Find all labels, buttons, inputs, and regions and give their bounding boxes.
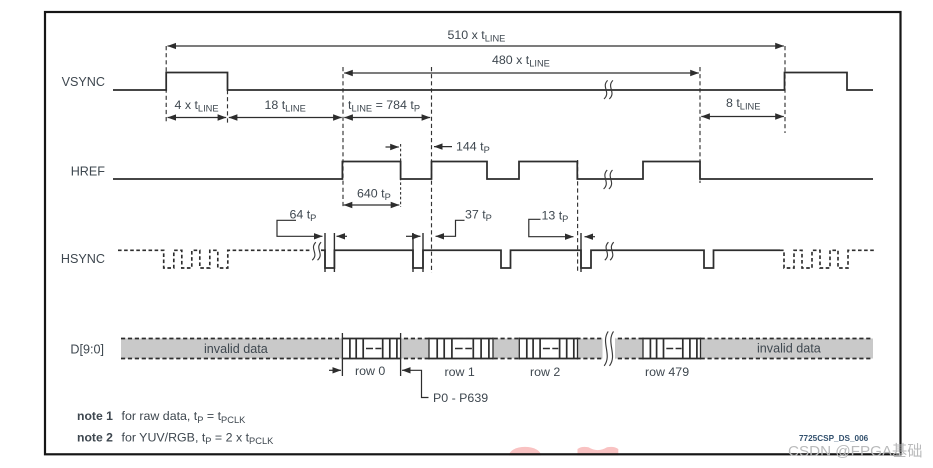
arrow 37 tP counterpart [406,235,421,237]
dashed guide x=577.6 [577,160,579,273]
tick x=581 [580,233,582,272]
tick x=334.4 [333,233,335,272]
wire HREF waveform [113,162,873,180]
dashed guide x=343 [342,67,344,207]
tick x=413 [412,233,414,272]
arrow 13 tP counterpart [585,236,596,238]
dashed guide x=227.5 [227,90,229,123]
arrow 144 tP left [434,146,452,148]
dim arrow 8 tLINE [701,116,784,118]
svg-text:CSDN @FPGA基础: CSDN @FPGA基础 [788,443,922,460]
watermark red blob 2 [578,447,619,456]
leader arrow 13 tP [529,219,574,236]
break HSYNC squiggle left [312,242,321,260]
break HREF squiggle [604,170,613,189]
arrow row0 left [329,369,341,371]
svg-text:note 2: note 2 [77,430,113,444]
node row1 segment [429,338,493,360]
wire VSYNC waveform [113,73,873,91]
svg-text:note 1: note 1 [77,409,113,423]
node row2 segment [519,338,577,360]
dashed guide x=431.5 [431,67,433,273]
dashed guide x=166 [165,46,167,123]
data bus band gray [121,339,873,359]
dim arrow 18 tLINE [229,117,342,119]
arrow 144 tP right [386,146,399,148]
svg-text:row 479: row 479 [645,365,689,379]
tick x=423 [422,233,424,272]
svg-text:P0 - P639: P0 - P639 [433,391,488,405]
svg-text:HREF: HREF [71,165,106,179]
svg-text:HSYNC: HSYNC [61,252,105,266]
tick x=325 [324,233,326,272]
break HSYNC squiggle right [605,242,614,260]
dim arrow 640 tP [344,204,400,206]
svg-text:VSYNC: VSYNC [62,75,105,89]
arrow 480 x tLINE [344,72,699,74]
break data band gap [603,337,616,361]
leader arrow 37 tP [436,220,465,236]
svg-text:row 2: row 2 [530,365,560,379]
data bus band bottom dashed [121,358,873,360]
leader arrow row0 right to P0-P639 [402,370,429,397]
arrow 510 x tLINE [168,45,784,47]
svg-text:row 1: row 1 [445,365,475,379]
watermark red blob 1 [509,447,541,456]
wire HSYNC dotted left [118,250,311,268]
svg-text:invalid data: invalid data [204,342,268,356]
dashed guide x=700 [699,67,701,183]
wire HSYNC solid [321,250,780,268]
node row0 segment [342,333,400,376]
arrow 64 tP counterpart [337,235,348,237]
wire HSYNC dotted right [780,250,875,268]
break data band squiggle [604,331,613,366]
dim arrow 4 x tLINE [168,117,227,119]
leader arrow 64 tP [277,220,323,236]
node row479 segment [643,338,701,360]
dashed guide x=785 [784,46,786,133]
svg-text:invalid data: invalid data [757,342,821,356]
svg-text:7725CSP_DS_006: 7725CSP_DS_006 [799,434,869,443]
dim arrow tLINE 784 tP [344,117,430,119]
svg-text:D[9:0]: D[9:0] [70,343,104,357]
data bus band top dashed [121,338,873,340]
break VSYNC squiggle [604,80,613,99]
dashed guide x=400 [400,144,402,207]
svg-text:row 0: row 0 [355,364,385,378]
